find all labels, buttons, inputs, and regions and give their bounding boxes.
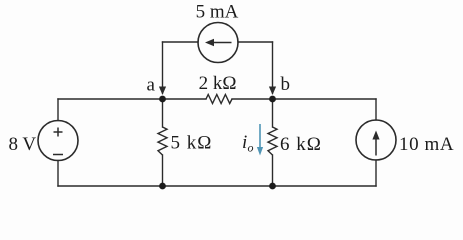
wire main horizontal left (source to node a) — [58, 98, 206, 100]
wire right branch lower — [375, 160, 377, 186]
wire node a to resistor 5k — [162, 99, 164, 127]
wire left branch lower — [57, 161, 59, 187]
node label b — [281, 74, 291, 95]
label 10 mA — [399, 134, 454, 155]
svg-text:2 kΩ: 2 kΩ — [199, 73, 237, 94]
voltage source V1 plus sign — [54, 128, 63, 137]
label 6 kOhm — [280, 134, 322, 155]
resistor R2 5 kOhm zigzag — [158, 127, 167, 155]
wire top loop right vertical into node b — [272, 42, 274, 93]
wire resistor 6k to bottom — [272, 155, 274, 186]
current source I1 arrow (points left) — [205, 39, 232, 46]
arrowhead into node b — [269, 87, 276, 96]
node label a — [147, 75, 156, 96]
current io arrow (teal, points down) — [257, 124, 263, 156]
node a dot — [159, 96, 166, 103]
wire top loop right horizontal — [238, 41, 273, 43]
bottom junction dot right — [269, 183, 276, 190]
label 2 kOhm — [199, 73, 237, 94]
current source I2 arrow (points up) — [372, 131, 379, 156]
svg-text:5 mA: 5 mA — [196, 2, 239, 23]
current source I1 5 mA circle — [198, 23, 238, 63]
bottom junction dot left — [159, 183, 166, 190]
label 5 mA — [196, 2, 239, 23]
label 8 V — [9, 134, 37, 155]
wire node b to resistor 6k — [272, 99, 274, 127]
resistor R3 6 kOhm zigzag — [268, 127, 277, 155]
svg-text:b: b — [281, 74, 291, 95]
voltage source V1 minus sign — [53, 154, 63, 156]
wire left branch upper — [57, 99, 59, 121]
wire bottom horizontal — [58, 185, 376, 187]
svg-text:8 V: 8 V — [9, 134, 37, 155]
current source I2 10 mA circle — [356, 120, 396, 160]
wire resistor 5k to bottom — [162, 155, 164, 186]
svg-text:5 kΩ: 5 kΩ — [171, 133, 213, 154]
svg-text:6 kΩ: 6 kΩ — [280, 134, 322, 155]
wire main horizontal right (node b to 10 mA source) — [232, 98, 376, 100]
resistor R1 2 kOhm zigzag — [206, 95, 232, 104]
wire top loop left horizontal — [163, 41, 199, 43]
wire top loop left vertical into node a — [162, 42, 164, 93]
label 5 kOhm — [171, 133, 213, 154]
wire right branch upper — [375, 99, 377, 120]
svg-text:10 mA: 10 mA — [399, 134, 454, 155]
voltage source V1 8 V circle — [38, 121, 78, 161]
svg-text:a: a — [147, 75, 156, 96]
svg-text:i: i — [242, 132, 247, 153]
node b dot — [269, 96, 276, 103]
label io — [242, 132, 254, 155]
arrowhead into node a — [159, 87, 166, 96]
svg-text:o: o — [248, 141, 254, 155]
